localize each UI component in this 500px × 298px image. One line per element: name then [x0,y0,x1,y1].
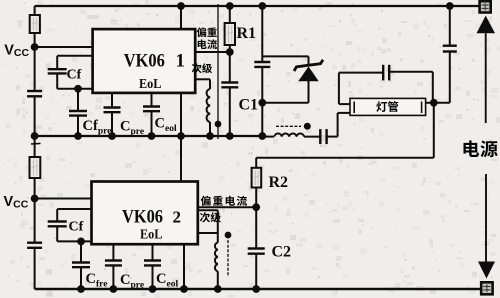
label Cfre [86,271,108,290]
wire T2 winding to bus [217,271,219,289]
svg-text:R1: R1 [237,25,257,42]
label secondary 1 (chinese) [192,63,212,73]
node zener bottom junction [258,99,266,107]
resistor (top-left, VCC feed 1) [30,15,40,33]
label R1 [237,25,257,42]
label secondary 2 (chinese) [200,212,221,222]
power arrow up [477,16,496,123]
wire left rail lower segment [34,136,36,289]
capacitor Ceol (2) [144,244,161,289]
capacitor C3 (series ballast) [320,129,326,144]
node R2 bottom junction [252,203,260,211]
capacitor Cfre [72,241,90,289]
capacitor Cf (1) [48,56,67,89]
lamp right electrode [421,102,423,114]
wire zener top branch [262,56,308,66]
wire C3 to lamp lower pin [327,113,350,137]
wire left rail upper segment [34,6,36,136]
label C1 [239,97,259,114]
wire U2 bias pin to R2 [198,206,256,208]
wire U2 top pin to mid bus [180,136,182,182]
label Ceol (2) [156,271,178,290]
wire U2 pin loop top [57,208,91,210]
svg-text:Cf: Cf [67,68,82,83]
svg-text:R2: R2 [269,174,289,191]
label VK06 1 [124,51,185,72]
label VK06 2 [122,207,181,228]
wire U2 secondary pin [198,210,218,242]
label C2 [272,244,292,261]
node R1 bottom junction [226,48,234,56]
node Cf2 bottom junction [77,238,85,246]
inductor ballast L1 [274,133,304,136]
wire inductor to C3 [304,136,320,138]
inductor T1 secondary winding [207,89,210,122]
wire U2 pin loop bottom [57,240,91,242]
label EoL 1 [139,77,162,92]
svg-text:Cf: Cf [69,220,84,235]
node Cf1 bottom junction [74,85,82,93]
node mid bus junctions [31,132,266,140]
wire U1 top pin to bus [180,6,182,29]
wire T1 winding to bus [209,122,211,136]
transformer T2 core line [227,236,229,278]
lamp left electrode [353,102,355,114]
wire lamp upper-left pin [339,73,350,105]
wire lamp right pin [426,102,434,104]
zener diode D1 [294,60,323,82]
power arrow down [478,262,495,279]
node ballast polarity dot [304,123,311,130]
node lamp right junction [430,99,438,107]
op-amp U1 VK06-1 block [93,29,196,93]
node U1 top pin on bus [177,2,185,10]
wire mid bus (circuit-1 ground) [35,135,263,137]
wire lamp return [256,103,434,158]
label Cf (2) [69,220,84,235]
wire U2 lower right pin stub [198,232,218,234]
resistor R2 [252,158,262,208]
transformer T1 core line [217,4,219,139]
wire power arrow stem lower [485,174,487,262]
capacitor Cpre (2) [105,244,122,289]
node T2 polarity dot [225,232,232,239]
label power source (chinese) [463,140,497,157]
label Ceol (1) [155,116,177,135]
capacitor on left rail (bottom) [27,243,42,248]
wire U1 bias pin to R1 [195,51,230,53]
node bottom bus junctions [77,285,260,293]
wire U1 pin loop bottom [57,88,92,90]
label R2 [269,174,289,191]
wire U1 pin loop top [57,55,92,57]
wire VCC1 to U1 [35,46,93,48]
node R1 top on bus [226,2,234,10]
capacitor C5 (top right) [443,6,457,103]
wire bottom bus [35,288,481,290]
svg-text:EoL: EoL [139,77,162,92]
inductor T2 secondary winding [215,243,218,272]
label lamp (chinese) [376,101,398,112]
wire crossing tick on left rail [31,142,41,145]
wire C4 to lamp right [389,72,433,103]
svg-text:2: 2 [173,208,182,227]
wire zener bottom branch [262,81,308,103]
capacitor C2 [248,207,265,289]
label Cpre (1) [120,119,144,138]
wire U1 secondary pin [195,79,210,89]
label bias-current 2 (chinese) [201,196,247,206]
wire top bus [35,5,480,7]
node VCC1 [31,43,39,51]
node T1 polarity dot [215,121,222,128]
wire VCC2 to U2 [35,198,92,200]
node line-B top on bus [258,2,266,10]
resistor R1 [225,6,235,52]
lamp tube (rect) [350,98,426,115]
label VCC (top) [4,43,29,60]
op-amp U2 VK06-2 block [92,182,198,245]
label bias-current 1 (chinese) [197,27,217,49]
wire bus to ballast inductor [262,136,274,138]
node top cap branch on bus [446,2,454,10]
wire C5 to lamp right node [434,102,450,104]
capacitor Cf (2) [48,209,67,241]
label EoL 2 [140,228,163,243]
capacitor C4 (parallel, lamp top) [383,65,389,81]
capacitor Cpre (1) [104,93,121,136]
terminal (bottom right) [481,282,492,294]
wire U2 ground pin [183,244,185,289]
capacitor on left rail (top) [27,91,42,96]
label Cfpre [83,118,112,137]
capacitor Ceol (1) [143,93,160,136]
capacitor Cfpre [69,89,87,136]
svg-text:C1: C1 [239,97,259,114]
transformer core line (ballast) [276,125,301,127]
capacitor C1 [221,52,238,136]
label VCC (bottom) [4,194,29,211]
node VCC2 [31,195,39,203]
label Cf (1) [67,68,82,83]
svg-text:VK06: VK06 [124,51,165,72]
svg-text:VK06: VK06 [122,207,163,228]
svg-text:1: 1 [176,51,186,72]
resistor (left, VCC feed 2) [30,157,41,178]
label Cpre (2) [120,272,144,291]
svg-text:EoL: EoL [140,228,163,243]
wire lamp top loop [339,72,383,74]
capacitor on line B [254,6,270,136]
wire U1 ground pin [180,93,182,136]
terminal (top right) [480,1,491,12]
svg-text:C2: C2 [272,244,292,261]
